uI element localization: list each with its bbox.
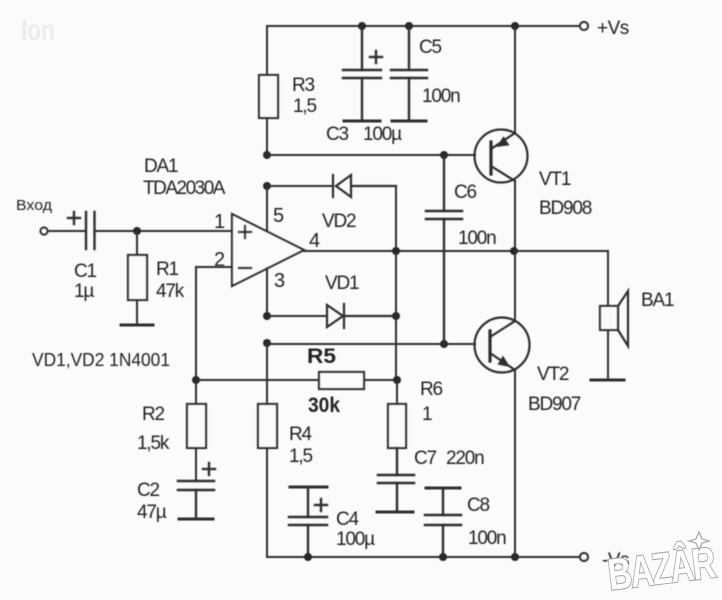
svg-text:VD2: VD2 — [322, 211, 356, 232]
diode VD2 — [333, 175, 396, 197]
svg-text:1,5k: 1,5k — [137, 433, 170, 454]
svg-text:R6: R6 — [420, 379, 443, 400]
terminal +Vs — [580, 22, 588, 30]
node VT1 rail junction — [511, 22, 519, 30]
node VD1 output junction — [392, 312, 400, 320]
resistor R2 — [187, 404, 206, 448]
wire C1 to pin1 — [95, 230, 233, 232]
opamp minus sign — [239, 267, 251, 269]
svg-text:BA1: BA1 — [641, 290, 674, 311]
wire pin5 node to VD2 — [267, 185, 333, 187]
svg-text:+Vs: +Vs — [597, 18, 629, 39]
svg-text:Ion: Ion — [21, 14, 55, 47]
svg-text:47µ: 47µ — [137, 502, 167, 523]
ground C8 — [426, 487, 460, 490]
svg-text:4: 4 — [309, 230, 320, 252]
svg-text:BD907: BD907 — [528, 394, 581, 415]
svg-text:TDA2030A: TDA2030A — [143, 178, 226, 199]
wire VT1 collector lead — [514, 26, 516, 133]
capacitor C2 — [178, 481, 214, 519]
svg-text:R3: R3 — [292, 75, 315, 96]
plus sign C4 — [315, 499, 327, 511]
node C6 top junction — [440, 151, 448, 159]
wire VT2 base line — [267, 343, 475, 344]
node C5 rail junction — [405, 22, 413, 30]
wire speaker to ground — [607, 330, 609, 380]
node R5 right junction — [393, 376, 401, 384]
svg-text:3: 3 — [274, 270, 285, 292]
node C6 bottom junction — [440, 340, 448, 348]
svg-text:100µ: 100µ — [363, 124, 402, 145]
ground R1 — [121, 324, 153, 327]
watermark BAZAR — [605, 537, 718, 600]
opamp plus sign — [239, 226, 251, 238]
node VT2 rail junction — [511, 553, 519, 561]
op-amp DA1 — [232, 214, 304, 286]
wire top rail +Vs — [267, 25, 580, 27]
svg-text:5: 5 — [273, 205, 284, 227]
wire R3 top lead — [266, 26, 268, 75]
node R3-pin5 junction — [263, 151, 271, 159]
wire VD2 to output column — [395, 186, 397, 251]
node pin3-VD1 junction — [263, 312, 271, 320]
svg-text:BD908: BD908 — [539, 198, 592, 219]
wire VT2 emitter lead — [514, 370, 516, 557]
wire R1 bottom lead — [136, 300, 138, 325]
svg-text:R2: R2 — [142, 404, 165, 425]
node C3 rail junction — [358, 22, 366, 30]
svg-text:C4: C4 — [336, 509, 360, 530]
watermark sparkle — [689, 532, 709, 550]
svg-text:C8: C8 — [467, 495, 490, 516]
svg-text:2: 2 — [214, 249, 225, 271]
node R5 left junction — [192, 376, 200, 384]
svg-text:R4: R4 — [289, 424, 313, 445]
ground C4 — [290, 486, 327, 489]
plus sign C2 — [203, 463, 215, 475]
capacitor C8 — [425, 488, 461, 557]
speaker BA1 — [600, 291, 628, 346]
wire pin3 lead — [266, 268, 268, 316]
node C4 rail junction — [304, 553, 312, 561]
wire VT1 emitter lead — [514, 181, 516, 251]
svg-text:1,5: 1,5 — [293, 96, 316, 117]
wire output to speaker — [607, 251, 609, 306]
svg-text:R1: R1 — [156, 259, 179, 280]
node pin3-VT2 base junction — [263, 339, 271, 347]
wire R4 bottom to rail — [266, 448, 268, 557]
wire R3 bottom lead — [266, 118, 268, 155]
capacitor C3 — [343, 26, 381, 121]
svg-text:DA1: DA1 — [144, 156, 178, 177]
capacitor C5 — [391, 26, 427, 121]
wire input to C1 — [48, 230, 86, 232]
ground BA1 — [591, 379, 624, 382]
capacitor C7 — [378, 448, 414, 512]
wire R1 top lead — [136, 231, 138, 255]
node output VT junction — [510, 247, 518, 255]
ground C5 — [392, 120, 426, 123]
svg-text:R5: R5 — [307, 345, 336, 368]
svg-text:VD1,VD2 1N4001: VD1,VD2 1N4001 — [32, 350, 170, 370]
wire pin3 to R4 — [266, 343, 268, 404]
svg-text:VT2: VT2 — [537, 364, 569, 385]
svg-text:1: 1 — [422, 404, 432, 425]
wire diode column — [395, 251, 397, 316]
svg-text:C1: C1 — [74, 261, 97, 282]
plus sign C1 — [68, 212, 80, 224]
svg-text:VT1: VT1 — [539, 169, 571, 190]
ground C7 — [377, 511, 413, 514]
wire R6 top lead — [396, 380, 398, 404]
wire VD1 anode — [267, 315, 327, 317]
svg-text:1,5: 1,5 — [289, 446, 312, 467]
diode VD1 — [327, 304, 396, 328]
wire bottom rail -Vs — [267, 556, 580, 558]
resistor R4 — [258, 404, 277, 448]
ground C2 — [179, 518, 213, 521]
node pin5-VD2 junction — [263, 182, 271, 190]
svg-text:1: 1 — [214, 211, 225, 233]
resistor R3 — [259, 75, 278, 118]
svg-text:47k: 47k — [156, 281, 185, 302]
node output diode column junction — [392, 247, 400, 255]
wire VT1 base line — [267, 154, 475, 156]
svg-text:Вход: Вход — [16, 197, 52, 214]
capacitor C4 — [289, 487, 327, 557]
svg-text:1µ: 1µ — [74, 281, 94, 302]
wire R2 bottom lead — [195, 448, 197, 481]
svg-text:100n: 100n — [458, 228, 496, 249]
transistor VT2 — [475, 318, 530, 373]
svg-text:100n: 100n — [468, 528, 506, 549]
resistor R1 — [128, 255, 147, 300]
wire pin2 lead — [196, 267, 232, 380]
svg-text:30k: 30k — [308, 394, 340, 417]
svg-text:C6: C6 — [454, 182, 477, 203]
wire VT2 collector lead — [514, 251, 516, 321]
resistor R6 — [388, 404, 406, 448]
svg-text:VD1: VD1 — [325, 273, 359, 294]
wire R2 top lead — [195, 380, 197, 404]
wire R5 right — [364, 379, 397, 381]
svg-text:220n: 220n — [446, 448, 484, 469]
svg-text:100µ: 100µ — [336, 529, 375, 550]
svg-text:C5: C5 — [419, 37, 442, 58]
terminal input Вход — [41, 228, 48, 235]
node C8 rail junction — [439, 553, 447, 561]
transistor VT1 — [475, 130, 528, 183]
wire R5 left — [196, 379, 319, 381]
terminal -Vs — [580, 553, 588, 561]
wire pin5 lead — [266, 186, 268, 232]
svg-text:100n: 100n — [422, 86, 460, 107]
svg-text:C3: C3 — [326, 124, 349, 145]
wire diode column to R5R6 node — [395, 316, 397, 380]
plus sign C3 — [370, 51, 382, 63]
ground C3 — [344, 120, 380, 123]
wire output pin4 — [304, 250, 608, 252]
svg-text:C7: C7 — [414, 448, 437, 469]
capacitor C1 — [86, 212, 95, 249]
svg-text:C2: C2 — [137, 480, 160, 501]
resistor R5 — [319, 372, 364, 389]
capacitor C6 — [426, 155, 462, 344]
node R1 top junction — [133, 227, 141, 235]
